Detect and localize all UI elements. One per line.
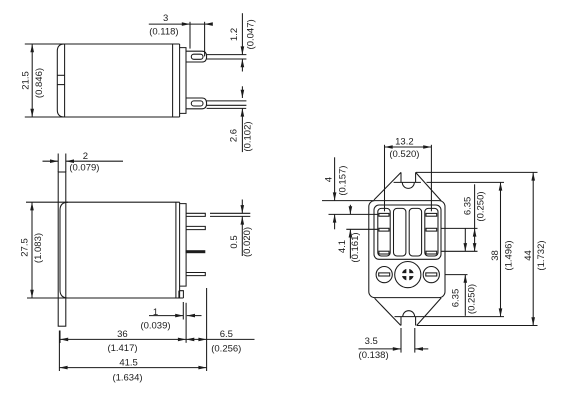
dimension 4 line lower bbox=[334, 214, 336, 229]
dimension 1 line left bbox=[149, 315, 183, 317]
svg-text:2.6: 2.6 bbox=[229, 129, 240, 142]
dimension 36 arrow left bbox=[60, 338, 68, 342]
QC lug 2 bbox=[186, 98, 207, 109]
dimension 6.5 line bbox=[186, 338, 254, 340]
coil terminal slot left bbox=[379, 273, 390, 276]
pin B bbox=[186, 226, 205, 229]
svg-text:0.5: 0.5 bbox=[229, 235, 240, 248]
dimension 4.1 reference line upper bbox=[329, 213, 378, 215]
flange bottom-left diagonal bbox=[375, 298, 401, 325]
body left rounded corners bbox=[60, 202, 68, 298]
dimension 4 arrow down bbox=[333, 192, 337, 200]
svg-text:(0.250): (0.250) bbox=[476, 191, 487, 221]
flange bottom notch bbox=[395, 317, 416, 326]
svg-text:(1.417): (1.417) bbox=[107, 343, 137, 354]
slot 1 contact bar 1 bbox=[379, 213, 389, 216]
bottom apex extension right bbox=[417, 325, 538, 327]
slot 2 bbox=[394, 208, 406, 256]
coil terminal slot right bbox=[426, 273, 437, 276]
dimension 1.2 arrow down bbox=[241, 46, 245, 54]
body outline rounded rect bbox=[369, 201, 445, 298]
cap tick upper bbox=[57, 74, 64, 76]
slot 4 bbox=[425, 208, 438, 256]
body right edge bbox=[179, 202, 181, 298]
svg-text:(0.102): (0.102) bbox=[242, 121, 253, 151]
dimension 6.35 upper line bbox=[474, 184, 476, 251]
dimension 1 arrow right bbox=[175, 314, 183, 318]
svg-text:1: 1 bbox=[153, 307, 158, 318]
svg-text:36: 36 bbox=[117, 329, 128, 340]
slot 4 contact bar 1 bbox=[426, 213, 437, 216]
dimension 4 line upper bbox=[334, 157, 336, 200]
svg-text:(0.846): (0.846) bbox=[34, 68, 45, 98]
notch floor extension right bbox=[427, 181, 505, 183]
dimension 4.1 arrow up bbox=[349, 229, 353, 237]
dimension 6.5 arrow left bbox=[186, 338, 194, 342]
dimension 41.5 line bbox=[59, 367, 206, 369]
flange bottom notch recess arc bbox=[403, 311, 415, 317]
svg-text:13.2: 13.2 bbox=[395, 137, 414, 148]
dimension 38 line bbox=[500, 182, 502, 316]
svg-text:(0.161): (0.161) bbox=[350, 232, 361, 262]
flange top notch bbox=[394, 172, 421, 182]
body right edge bbox=[179, 44, 181, 117]
dimension 36 arrow right bbox=[178, 338, 186, 342]
dimension 2 arrow right bbox=[50, 159, 58, 163]
pin C (thick) bbox=[186, 250, 206, 253]
svg-text:(1.496): (1.496) bbox=[503, 240, 514, 270]
dimension 3.5 extension left bbox=[400, 328, 402, 353]
dimension 4.1 arrow down bbox=[349, 206, 353, 214]
dimension 2.6 line upper bbox=[241, 86, 243, 98]
dimension 13.2 line bbox=[385, 146, 432, 148]
svg-text:41.5: 41.5 bbox=[119, 357, 138, 368]
rear strip bbox=[180, 204, 187, 287]
dimension 13.2 arrow right bbox=[423, 145, 431, 149]
svg-text:(0.138): (0.138) bbox=[359, 350, 389, 361]
dimension 3.5 extension right bbox=[414, 328, 416, 353]
svg-text:(0.020): (0.020) bbox=[242, 227, 253, 257]
svg-text:(0.520): (0.520) bbox=[389, 149, 419, 160]
mounting flange plate bbox=[58, 172, 66, 326]
dimension 1 extension bbox=[182, 302, 184, 320]
phillips recess white cross horizontal bbox=[401, 273, 414, 276]
dimension 4.1 reference line lower bbox=[346, 228, 378, 230]
dimension 27.5 arrow down bbox=[30, 290, 34, 298]
pin 1 lead upper line bbox=[207, 54, 247, 56]
pin A extension line upper bbox=[210, 212, 250, 214]
svg-text:21.5: 21.5 bbox=[21, 71, 32, 90]
dimension 4 reference line bbox=[322, 200, 374, 202]
dimension 2 line bbox=[43, 160, 124, 162]
dimension 3 extension left bbox=[189, 22, 191, 49]
dimension 6.35 upper arrow down bbox=[473, 243, 477, 251]
body right seam bbox=[175, 202, 177, 298]
dimension 21.5 arrow down bbox=[30, 109, 34, 117]
dimension 0.5 line lower bbox=[241, 216, 243, 256]
center screw circle bbox=[395, 262, 421, 288]
dimension 41.5 extension left bbox=[58, 331, 60, 372]
pin D bbox=[186, 273, 205, 276]
dimension 1.2 line lower bbox=[241, 59, 243, 72]
svg-text:2: 2 bbox=[83, 151, 88, 162]
slot 1 contact bar 2 bbox=[379, 228, 389, 231]
cap tick lower bbox=[57, 84, 64, 86]
dimension 44 arrow up bbox=[531, 172, 535, 180]
svg-text:(0.118): (0.118) bbox=[149, 26, 178, 37]
dimension 3 arrow left bbox=[205, 22, 213, 26]
svg-text:(0.250): (0.250) bbox=[467, 284, 478, 314]
pin 2 lead upper line bbox=[207, 100, 247, 102]
dimension 4.1 line lower bbox=[349, 229, 351, 258]
body right seam bbox=[172, 44, 174, 117]
dimension 13.2 arrow left bbox=[385, 145, 393, 149]
coil terminal circle right bbox=[423, 267, 439, 283]
slot 1 contact bar 3 bbox=[379, 251, 389, 254]
svg-text:1.2: 1.2 bbox=[229, 28, 240, 41]
dimension 1.2 arrow up bbox=[241, 59, 245, 67]
lug 2 bottom extension line bbox=[207, 107, 247, 109]
bottom step box bbox=[179, 291, 184, 298]
dimension 3.5 line left bbox=[359, 348, 402, 350]
dimension 2.6 line lower bbox=[241, 108, 243, 152]
body left rounded cap bbox=[57, 44, 64, 117]
dimension 0.5 arrow up bbox=[241, 216, 245, 224]
pin A extension line lower bbox=[210, 215, 250, 217]
slot 4 contact bar 3 bbox=[426, 251, 437, 254]
body top edge with extension line bbox=[25, 43, 180, 45]
dimension 36 extension right bbox=[185, 303, 187, 343]
dimension 38 arrow down bbox=[499, 308, 503, 316]
dimension 27.5 arrow up bbox=[30, 202, 34, 210]
svg-text:4.1: 4.1 bbox=[337, 240, 348, 253]
dimension 41.5 arrow right bbox=[198, 366, 206, 370]
body left cap seam bbox=[64, 44, 66, 117]
flange top notch recess arc bbox=[402, 182, 414, 188]
flange top-right diagonal bbox=[416, 172, 442, 201]
svg-text:38: 38 bbox=[490, 250, 501, 261]
pin 1 lead lower line bbox=[207, 58, 247, 60]
dimension 6.35 lower arrow down bbox=[463, 243, 467, 251]
svg-text:(1.634): (1.634) bbox=[112, 373, 142, 384]
svg-text:27.5: 27.5 bbox=[20, 238, 31, 257]
dimension 27.5 line bbox=[31, 202, 33, 298]
dimension 6.35 lower line lower part bbox=[464, 275, 466, 316]
phillips recess dark disc bbox=[402, 269, 414, 281]
svg-text:3: 3 bbox=[163, 13, 168, 24]
svg-text:6.5: 6.5 bbox=[220, 329, 233, 340]
dimension 1 line right bbox=[187, 315, 202, 317]
bottom notch floor extension right bbox=[415, 316, 504, 318]
lug 2 hole bbox=[191, 101, 203, 106]
bar3 extension right bbox=[441, 250, 478, 252]
right flange plate bbox=[180, 48, 186, 114]
phillips recess white cross vertical bbox=[406, 268, 409, 281]
svg-text:(0.047): (0.047) bbox=[245, 19, 256, 49]
pin 2 lead lower line bbox=[207, 104, 247, 106]
dimension 0.5 arrow down bbox=[241, 205, 245, 213]
body bottom edge with extension line bbox=[27, 297, 183, 299]
dimension 6.35 lower line upper part bbox=[464, 228, 466, 251]
terminal block outline bbox=[374, 205, 441, 259]
dimension 1.2 line upper bbox=[241, 13, 243, 54]
dimension 13.2 extension right bbox=[430, 145, 432, 212]
body top edge with extension line bbox=[26, 201, 180, 203]
pin A bbox=[186, 213, 205, 216]
svg-text:3.5: 3.5 bbox=[365, 336, 378, 347]
pin tip extension line bbox=[206, 288, 208, 371]
dimension 2.6 arrow up bbox=[241, 108, 245, 116]
flange top-left diagonal bbox=[374, 172, 401, 200]
dimension 2.6 arrow down bbox=[241, 90, 245, 98]
dimension 36 line bbox=[60, 338, 186, 340]
dimension 6.5 arrow right bbox=[198, 338, 206, 342]
svg-text:44: 44 bbox=[523, 250, 534, 261]
dimension 2 extension lines bbox=[58, 154, 66, 173]
dimension 4.1 line upper bbox=[349, 205, 351, 215]
dimension 6.35 upper arrow up bbox=[473, 228, 477, 236]
dimension 3 line bbox=[149, 23, 213, 25]
dimension 21.5 line bbox=[31, 44, 33, 117]
dimension 3 extension right bbox=[204, 22, 206, 57]
dimension 36 extension left bbox=[59, 331, 61, 344]
dimension 13.2 extension left bbox=[384, 145, 386, 212]
dimension 3.5 line right bbox=[415, 348, 429, 350]
dimension 6.35 lower arrow up bbox=[463, 275, 467, 283]
svg-text:(0.079): (0.079) bbox=[69, 163, 99, 174]
dimension 44 line bbox=[532, 172, 534, 325]
lug 1 hole bbox=[191, 54, 203, 59]
svg-text:(0.256): (0.256) bbox=[211, 343, 241, 354]
dimension 4 arrow up bbox=[333, 214, 337, 222]
slot 1 bbox=[378, 208, 390, 256]
flange bottom-right diagonal bbox=[417, 298, 442, 326]
dimension 21.5 arrow up bbox=[30, 44, 34, 52]
dimension 3 arrow right bbox=[182, 22, 190, 26]
body bottom edge with extension line bbox=[25, 116, 180, 118]
coil terminal circle left bbox=[376, 267, 392, 283]
bar2 extension right bbox=[441, 227, 478, 229]
svg-text:(0.039): (0.039) bbox=[140, 321, 170, 332]
svg-text:4: 4 bbox=[324, 177, 335, 182]
svg-text:(1.732): (1.732) bbox=[536, 240, 547, 270]
circle line extension right bbox=[445, 274, 468, 276]
svg-text:6.35: 6.35 bbox=[462, 197, 473, 216]
svg-text:(1.083): (1.083) bbox=[33, 233, 44, 263]
svg-text:6.35: 6.35 bbox=[451, 289, 462, 308]
dimension 38 arrow up bbox=[499, 182, 503, 190]
dimension 0.5 line upper bbox=[241, 200, 243, 214]
svg-text:(0.157): (0.157) bbox=[337, 166, 348, 196]
dimension 3.5 arrow left bbox=[415, 347, 423, 351]
slot 4 contact bar 2 bbox=[426, 228, 437, 231]
QC lug 1 bbox=[186, 51, 207, 62]
apex extension right bbox=[416, 171, 538, 173]
dimension 44 arrow down bbox=[531, 317, 535, 325]
dimension 1 arrow left bbox=[187, 314, 195, 318]
slot 3 bbox=[409, 208, 421, 256]
dimension 2 arrow left bbox=[66, 159, 74, 163]
dimension 3.5 arrow right bbox=[393, 347, 401, 351]
dimension 41.5 arrow left bbox=[59, 366, 67, 370]
